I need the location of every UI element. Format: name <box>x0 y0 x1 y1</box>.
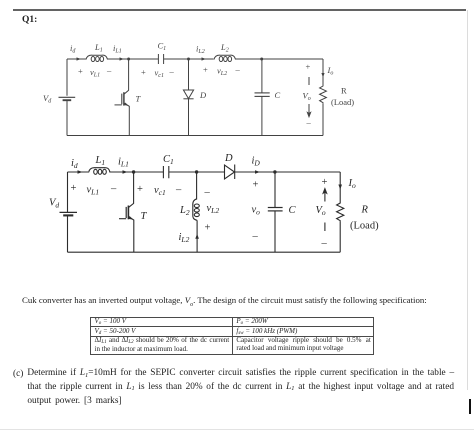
transistor T (cuk IGBT) <box>124 59 129 94</box>
wire: sepic top rail diode to C node to corner <box>235 171 341 173</box>
svg-text:D: D <box>224 153 233 164</box>
svg-text:+: + <box>71 183 77 194</box>
svg-text:vL2: vL2 <box>217 66 227 78</box>
page right faint border line <box>467 10 468 390</box>
svg-text:L1: L1 <box>95 155 106 167</box>
node C-top (C junction, cuk) <box>260 58 263 61</box>
svg-text:vL1: vL1 <box>87 185 100 197</box>
capacitor C1 (sepic) <box>163 166 168 178</box>
svg-text:id: id <box>71 158 78 170</box>
wire: sepic bottom rail <box>68 251 341 253</box>
node A (L1/T/C1 junction, sepic) <box>132 170 135 173</box>
svg-text:–: – <box>306 118 312 128</box>
svg-text:L2: L2 <box>179 205 190 217</box>
svg-text:vo: vo <box>252 205 261 217</box>
battery Vd (sepic) <box>60 211 78 213</box>
resistor R (sepic load) <box>337 202 344 222</box>
svg-text:C1: C1 <box>158 41 167 53</box>
current arrow i_L1 (sepic) <box>123 170 128 174</box>
svg-text:T: T <box>136 94 142 104</box>
annotation Vo arrow (cuk) <box>308 77 310 85</box>
wire: cuk bottom rail <box>67 135 323 137</box>
svg-text:Vo: Vo <box>303 91 311 103</box>
wire: sepic top rail L1 to C1 <box>110 171 163 173</box>
inductor L1 (sepic) <box>89 168 111 173</box>
svg-text:+: + <box>141 67 146 77</box>
diode D (sepic, pointing right) <box>225 165 235 179</box>
wire: cuk load bottom <box>322 104 324 136</box>
node C-top (D/C junction, sepic) <box>273 170 276 173</box>
svg-text:+: + <box>253 180 259 191</box>
wire: sepic right vertical + Io arrow <box>339 172 341 202</box>
svg-text:–: – <box>106 66 112 76</box>
svg-text:Vo: Vo <box>316 205 326 217</box>
wire: sepic top rail left segment <box>68 171 89 173</box>
wire: sepic top rail C1 to diode <box>169 171 225 173</box>
capacitor C (sepic) <box>274 172 276 207</box>
wire: cuk right vertical + Io arrow <box>322 59 324 85</box>
wire: L2 bottom to rail + current arrow i_L2 <box>196 220 198 252</box>
svg-text:+: + <box>137 184 143 195</box>
svg-text:–: – <box>110 184 117 195</box>
svg-text:iL2: iL2 <box>196 44 205 56</box>
svg-text:Vd: Vd <box>43 93 52 105</box>
current arrow i_d (cuk) <box>77 57 82 60</box>
svg-text:vL1: vL1 <box>90 67 100 79</box>
wire: cuk top rail left segment <box>67 58 86 60</box>
inductor L2 (sepic, vertical) <box>196 172 198 199</box>
svg-text:iL1: iL1 <box>113 43 122 55</box>
page bottom faint edge <box>0 429 474 430</box>
current arrow i_D (sepic) <box>255 170 260 174</box>
wire: cuk left vertical top <box>66 59 68 96</box>
svg-text:vL2: vL2 <box>207 203 220 215</box>
wire: cuk top rail C to load corner <box>262 58 323 60</box>
svg-text:–: – <box>235 65 241 75</box>
current arrow i_d (sepic) <box>78 170 83 174</box>
wire: sepic left vertical top <box>67 172 69 212</box>
svg-text:T: T <box>141 211 148 222</box>
svg-text:L2: L2 <box>220 42 229 54</box>
wire: cuk top rail L2 to C <box>236 58 262 60</box>
svg-text:–: – <box>169 67 175 77</box>
capacitor C1 (cuk) <box>158 54 163 64</box>
wire: cuk top rail L1 to C1 <box>108 58 159 60</box>
svg-text:C1: C1 <box>163 154 174 166</box>
current arrow i_L1 (cuk) <box>120 57 125 60</box>
paragraph: Cuk intro <box>22 295 472 308</box>
node B (C1/L2/D junction, sepic) <box>195 170 198 173</box>
svg-text:+: + <box>306 62 311 72</box>
paragraph: question (c) <box>13 367 465 407</box>
svg-text:R: R <box>361 205 369 216</box>
svg-text:Io: Io <box>327 65 334 77</box>
annotation Vo arrow (sepic) <box>323 189 326 202</box>
node A (L1/T/C1 junction, cuk) <box>127 58 130 61</box>
svg-text:iD: iD <box>252 156 261 168</box>
svg-text:C: C <box>275 90 281 100</box>
transistor T (sepic IGBT) <box>128 172 133 208</box>
svg-text:D: D <box>199 90 207 100</box>
svg-text:(Load): (Load) <box>331 97 354 107</box>
svg-text:R: R <box>341 86 347 96</box>
svg-text:iL2: iL2 <box>179 232 190 244</box>
svg-text:Vd: Vd <box>49 198 59 210</box>
inductor L1 (cuk) <box>86 55 108 59</box>
battery Vd (cuk) <box>59 96 76 98</box>
capacitor C (cuk) <box>261 59 263 93</box>
wire: cuk top rail C1 to L2 <box>164 58 214 60</box>
svg-text:–: – <box>321 238 328 249</box>
svg-text:–: – <box>175 185 182 196</box>
svg-text:vc1: vc1 <box>154 185 166 197</box>
svg-text:+: + <box>205 223 211 234</box>
text cursor bar <box>469 399 472 414</box>
wire: sepic load bottom <box>339 222 341 253</box>
inductor L2 (cuk) <box>214 55 236 59</box>
page top border line <box>13 9 466 11</box>
svg-text:(Load): (Load) <box>350 221 379 232</box>
svg-text:+: + <box>322 177 328 188</box>
svg-text:C: C <box>289 205 297 216</box>
diode D (cuk, pointing down) <box>188 59 190 90</box>
table: specifications <box>90 317 374 355</box>
svg-text:iL1: iL1 <box>118 157 129 169</box>
node B (C1/D/L2 junction, cuk) <box>187 58 190 61</box>
svg-text:–: – <box>204 187 211 198</box>
svg-text:L1: L1 <box>94 42 103 54</box>
wire: cuk left vertical bottom <box>66 100 68 135</box>
current arrow i_L2 (cuk) <box>202 57 207 60</box>
svg-text:id: id <box>70 43 76 55</box>
svg-text:+: + <box>203 65 208 75</box>
svg-text:–: – <box>252 231 259 242</box>
svg-text:Io: Io <box>348 178 357 190</box>
Q1 heading <box>22 15 37 25</box>
wire: sepic left vertical bottom <box>67 215 69 252</box>
svg-text:+: + <box>78 66 83 76</box>
resistor R (cuk load) <box>320 85 327 104</box>
svg-text:vc1: vc1 <box>155 68 164 80</box>
